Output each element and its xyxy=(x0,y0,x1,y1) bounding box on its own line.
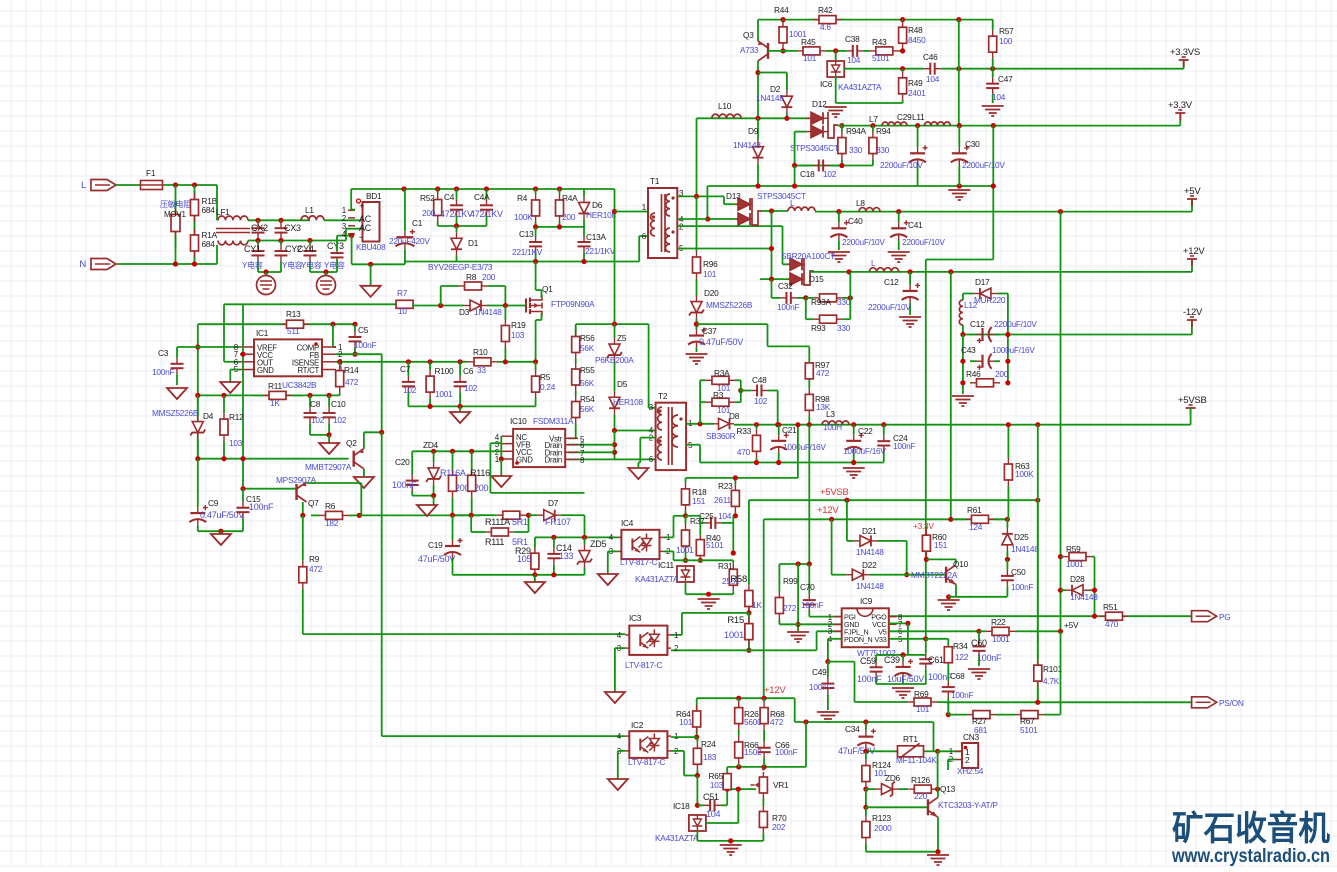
svg-text:C43: C43 xyxy=(961,345,976,355)
resistor R44 xyxy=(782,21,784,27)
svg-text:N: N xyxy=(79,259,86,270)
svg-text:56K: 56K xyxy=(580,404,595,414)
IC4 ground xyxy=(598,574,618,585)
wire R69 to PSON line xyxy=(937,701,948,703)
transistor Q10 MMBT2222A xyxy=(945,567,947,583)
junction CY earth1 xyxy=(263,269,268,274)
svg-text:R96: R96 xyxy=(703,259,718,269)
wire base Q10 xyxy=(884,574,946,576)
capacitor C20 xyxy=(411,475,413,481)
junction C8C10 gnd xyxy=(327,432,332,437)
svg-text:STPS3045CT: STPS3045CT xyxy=(757,191,806,201)
svg-text:MMBT2222A: MMBT2222A xyxy=(911,570,958,580)
svg-text:200: 200 xyxy=(562,212,576,222)
wire 5VSB riser xyxy=(1190,408,1192,425)
C8C10 ground xyxy=(328,435,330,443)
wire PDON line xyxy=(828,638,842,640)
junction sb gnd b xyxy=(776,460,781,465)
wire IC6 bottom line xyxy=(835,76,837,103)
svg-text:L1: L1 xyxy=(305,205,314,215)
wire Vstr pin5 xyxy=(568,437,576,439)
wire Q2 emitter gnd xyxy=(363,469,365,477)
wire choke top feed xyxy=(216,185,218,220)
svg-text:8450: 8450 xyxy=(908,35,926,45)
wire drain pin6 xyxy=(568,444,615,446)
resistor R4 xyxy=(535,194,537,200)
svg-text:100nF: 100nF xyxy=(392,480,417,490)
svg-text:200: 200 xyxy=(482,272,496,282)
-12V block ground xyxy=(952,396,974,406)
wire L10 line xyxy=(697,117,810,119)
wire R65 top xyxy=(726,767,728,774)
svg-text:R33: R33 xyxy=(737,426,752,436)
svg-text:1000uF/16V: 1000uF/16V xyxy=(783,442,826,452)
aux bottom ground xyxy=(720,845,742,855)
svg-text:C48: C48 xyxy=(752,375,767,385)
junction C34 bottom xyxy=(863,749,868,754)
resistor R5 xyxy=(535,370,537,376)
wire ref line C46 xyxy=(844,68,921,70)
junction R18 R37 xyxy=(683,513,688,518)
wire 5V long feed xyxy=(1060,212,1062,632)
capacitor C8 xyxy=(309,407,311,413)
capacitor C40 xyxy=(838,222,840,228)
svg-text:C32: C32 xyxy=(778,281,793,291)
svg-text:L: L xyxy=(871,258,876,268)
svg-text:MOV1: MOV1 xyxy=(164,210,186,219)
svg-text:R61: R61 xyxy=(967,505,982,515)
svg-text:1001: 1001 xyxy=(992,634,1010,644)
junction C12b right xyxy=(1005,332,1010,337)
svg-text:HER108: HER108 xyxy=(613,397,643,407)
svg-text:CX3: CX3 xyxy=(284,223,301,233)
svg-text:10uF/50V: 10uF/50V xyxy=(887,674,924,684)
svg-text:1000uF/16V: 1000uF/16V xyxy=(992,345,1035,355)
junction q13 gnd xyxy=(935,849,940,854)
svg-text:R69: R69 xyxy=(914,689,929,699)
junction D9 top xyxy=(755,116,760,121)
svg-text:C70: C70 xyxy=(800,582,815,592)
earth ground 2 xyxy=(325,272,327,276)
wire T1 pin3 line xyxy=(677,195,724,197)
junction R46 right xyxy=(1005,380,1010,385)
transistor Q2 MMBT2907A xyxy=(353,451,355,467)
diode D3 xyxy=(464,305,470,307)
wire pdon right xyxy=(828,661,855,663)
svg-text:R101: R101 xyxy=(1043,664,1062,674)
junction D2 bottom xyxy=(784,116,789,121)
svg-text:R24: R24 xyxy=(701,739,716,749)
svg-text:A733: A733 xyxy=(740,45,759,55)
wire D12 output to flag 3V3 xyxy=(838,125,1180,127)
junction sb gnd a xyxy=(754,460,759,465)
svg-text:2200uF/10V: 2200uF/10V xyxy=(880,160,923,170)
svg-text:C12: C12 xyxy=(884,277,899,287)
svg-text:PS/ON: PS/ON xyxy=(1219,698,1244,708)
junction R111 right xyxy=(469,513,474,518)
C47 ground xyxy=(982,106,1004,116)
junction cap rail xyxy=(900,652,905,657)
wire to CN3 pin1 xyxy=(938,750,962,752)
wire R22 to 5V xyxy=(1022,630,1061,632)
junction VCC col xyxy=(905,621,910,626)
svg-text:PG: PG xyxy=(1219,612,1231,622)
svg-text:104: 104 xyxy=(706,809,721,819)
resistor R54 xyxy=(575,396,577,402)
wire Q2 collector xyxy=(363,432,365,448)
svg-text:56K: 56K xyxy=(580,378,595,388)
wire D21 right drop xyxy=(884,540,907,542)
wire bottom gnd bus xyxy=(866,851,938,853)
wire D3 to gate xyxy=(490,305,526,307)
capacitor C59 xyxy=(875,661,877,667)
junction D28 left xyxy=(1058,588,1063,593)
resistor R1B xyxy=(194,194,196,200)
wire RT1 right xyxy=(925,750,938,752)
resistor R43 xyxy=(870,50,876,52)
svg-text:C68: C68 xyxy=(950,671,965,681)
pgi ground xyxy=(787,632,809,642)
svg-text:472: 472 xyxy=(770,717,784,727)
wire Q7 emitter xyxy=(307,482,362,484)
junction ref node xyxy=(736,787,741,792)
svg-text:R42: R42 xyxy=(818,5,833,15)
capacitor C4A xyxy=(486,199,488,205)
wire IC2 pin3 gnd xyxy=(618,750,625,752)
resistor R56 xyxy=(575,331,577,337)
resistor R29 xyxy=(534,548,536,554)
svg-text:+5VSB: +5VSB xyxy=(820,487,849,498)
capacitor C6 xyxy=(459,376,461,382)
svg-text:33: 33 xyxy=(477,365,486,375)
filter ground xyxy=(459,406,461,412)
junction D20 bottom xyxy=(694,322,699,327)
junction R26 top xyxy=(736,696,741,701)
resistor R94A xyxy=(841,132,843,138)
junction R46 left xyxy=(960,380,965,385)
svg-text:2611: 2611 xyxy=(714,495,731,505)
svg-text:IC1: IC1 xyxy=(256,328,269,338)
svg-text:C21: C21 xyxy=(782,425,797,435)
wire D15 out 12V line xyxy=(810,271,1192,273)
junction C5 bottom FB xyxy=(352,352,357,357)
svg-text:R8: R8 xyxy=(466,272,477,282)
wire FB link xyxy=(336,353,382,355)
diode D28 1N4148 xyxy=(1066,589,1072,591)
wire 5V line xyxy=(815,211,1192,213)
junction R100 top xyxy=(428,359,433,364)
capacitor CX2 xyxy=(257,222,259,228)
wire R58 riser xyxy=(748,500,750,584)
connector CN3 XH2.54 xyxy=(962,743,978,768)
transformer T2 xyxy=(656,403,687,470)
junction C37 top xyxy=(694,322,699,327)
wire Q3 base line xyxy=(768,50,795,52)
svg-text:104: 104 xyxy=(992,92,1006,102)
wire R9 to IC3 pin4 xyxy=(303,633,625,635)
junction R116A top xyxy=(450,449,455,454)
junction lower anode xyxy=(769,277,774,282)
junction R40 bottom xyxy=(698,558,703,563)
C37 ground xyxy=(686,354,708,364)
wire C18 line xyxy=(795,165,873,167)
resistor R61 xyxy=(965,518,971,520)
svg-text:BYV26EGP-E3/73: BYV26EGP-E3/73 xyxy=(428,262,493,272)
wire IC4 pin2 down xyxy=(663,550,673,552)
capacitor C50 xyxy=(1006,570,1008,576)
svg-text:C3: C3 xyxy=(158,348,169,358)
junction R31 top xyxy=(731,550,736,555)
svg-text:100K: 100K xyxy=(1015,469,1034,479)
junction CX2 top xyxy=(255,218,260,223)
svg-text:1001: 1001 xyxy=(676,545,694,555)
junction drain b xyxy=(612,450,617,455)
svg-text:D3: D3 xyxy=(459,307,470,317)
svg-text:100nF: 100nF xyxy=(354,340,376,350)
junction C43 left xyxy=(960,359,965,364)
zener ZD5 xyxy=(584,545,586,551)
svg-text:1001: 1001 xyxy=(1066,559,1084,569)
transistor Q3 A733 xyxy=(767,43,769,59)
svg-text:1N4148: 1N4148 xyxy=(733,140,761,150)
svg-text:L10: L10 xyxy=(718,101,732,111)
svg-text:100nF: 100nF xyxy=(809,682,831,692)
wire R124 column xyxy=(865,751,867,758)
junction PDON C49 xyxy=(825,659,830,664)
resistor R69 xyxy=(908,701,914,703)
svg-text:ZD6: ZD6 xyxy=(885,773,901,783)
primary ground xyxy=(370,264,372,286)
wire to T1 pin6 xyxy=(638,236,640,262)
junction ref R49 xyxy=(900,66,905,71)
svg-text:STPS3045CT: STPS3045CT xyxy=(790,143,839,153)
resistor R100 xyxy=(429,370,431,376)
wire pgi gnd drop xyxy=(797,564,799,631)
junction V33 xyxy=(923,636,928,641)
wire F1 to node xyxy=(163,184,217,186)
svg-text:151: 151 xyxy=(692,496,706,506)
sb ground xyxy=(843,468,865,478)
dual diode D12 STPS3045CT xyxy=(806,117,811,119)
svg-text:+5V: +5V xyxy=(1184,186,1201,197)
wire C51 right up xyxy=(726,789,728,805)
svg-text:ZD4: ZD4 xyxy=(423,440,439,450)
svg-text:www.crystalradio.cn: www.crystalradio.cn xyxy=(1171,845,1330,867)
inductor L 12V xyxy=(869,268,898,272)
svg-text:5R1: 5R1 xyxy=(512,517,528,527)
svg-text:R22: R22 xyxy=(991,617,1006,627)
common mode choke LF1 xyxy=(218,216,248,220)
svg-text:R94: R94 xyxy=(876,126,891,136)
junction R43 right xyxy=(900,48,905,53)
zener D20 MMSZ5226B xyxy=(696,296,698,302)
wire V33 line xyxy=(889,638,926,640)
wire 12V riser xyxy=(1191,259,1193,272)
svg-text:R34: R34 xyxy=(953,641,968,651)
wire T1 pin2 xyxy=(677,225,782,227)
wire C25 left up xyxy=(699,516,701,523)
wire ka431 ref bus xyxy=(674,559,734,561)
svg-text:182: 182 xyxy=(325,518,339,528)
resistor R12 xyxy=(223,413,225,419)
svg-text:R4: R4 xyxy=(517,193,528,203)
wire IC6 top xyxy=(835,51,837,61)
svg-text:R100: R100 xyxy=(435,366,454,376)
svg-text:R55: R55 xyxy=(580,365,595,375)
junction FB node xyxy=(379,430,384,435)
junction sense a xyxy=(956,66,961,71)
svg-text:+12V: +12V xyxy=(764,685,786,696)
resistor R19 xyxy=(504,320,506,326)
resistor R6 xyxy=(320,514,326,516)
wire Q7 collector xyxy=(302,502,304,515)
svg-text:KTC3203-Y-AT/P: KTC3203-Y-AT/P xyxy=(938,800,998,810)
junction IC11 gnd xyxy=(706,592,711,597)
wire IC4 pin3 gnd xyxy=(608,550,618,552)
wire IC4 pin1 up xyxy=(663,536,673,538)
svg-text:FTP09N90A: FTP09N90A xyxy=(551,299,595,309)
inductor L8 xyxy=(859,208,880,212)
svg-text:124: 124 xyxy=(969,522,983,532)
junction IC18 top xyxy=(695,803,700,808)
junction PSON R101 xyxy=(1035,700,1040,705)
wire R111 line xyxy=(453,514,495,516)
wire 3V3 sb drop xyxy=(992,126,994,260)
junction R4A top xyxy=(557,186,562,191)
wire L1 to BD1 pin2 xyxy=(324,219,363,221)
junction C18 left xyxy=(792,163,797,168)
svg-text:ZD5: ZD5 xyxy=(590,539,606,549)
wire VCC bus ZD4 xyxy=(412,450,501,452)
resistor R59 xyxy=(1063,556,1069,558)
inductor L10 xyxy=(712,114,741,118)
wire C19 tap xyxy=(452,515,454,537)
wire T2 pin2 gnd xyxy=(640,437,655,439)
svg-text:C49: C49 xyxy=(812,667,827,677)
junction R22 left xyxy=(976,629,981,634)
capacitor C19 xyxy=(452,540,454,546)
wire drain column xyxy=(614,431,616,460)
wire IC2 pin4 line xyxy=(382,735,626,737)
svg-text:RT/CT: RT/CT xyxy=(297,366,319,375)
junction R63 top xyxy=(1006,422,1011,427)
inductor L 5V xyxy=(788,207,815,211)
wire cap gnd rail xyxy=(876,683,926,685)
svg-text:104: 104 xyxy=(926,74,940,84)
wire R101 feed xyxy=(1037,500,1039,644)
svg-text:R123: R123 xyxy=(872,813,891,823)
svg-text:1N4148: 1N4148 xyxy=(474,307,502,317)
junction R5 top xyxy=(533,359,538,364)
svg-text:D25: D25 xyxy=(1014,532,1029,542)
svg-text:+5VSB: +5VSB xyxy=(1178,395,1207,406)
svg-text:100nF: 100nF xyxy=(152,367,174,377)
junction L1a xyxy=(173,182,178,187)
svg-text:C18: C18 xyxy=(800,169,815,179)
IC9 WT7510 xyxy=(842,608,889,647)
wire 3V3VS riser xyxy=(1183,60,1185,69)
svg-text:330: 330 xyxy=(849,145,863,155)
svg-text:D22: D22 xyxy=(862,560,877,570)
wire RT1 line xyxy=(866,750,900,752)
wire CY4 CY3 bottoms xyxy=(309,266,311,272)
zener D4 MMSZ5226B xyxy=(197,416,199,422)
svg-text:100: 100 xyxy=(999,36,1013,46)
svg-text:684: 684 xyxy=(202,205,216,215)
svg-text:R93A: R93A xyxy=(811,297,831,307)
junction 12V col tap xyxy=(948,269,953,274)
svg-text:2: 2 xyxy=(965,755,970,765)
junction PG R51 xyxy=(1092,614,1097,619)
wire IC18 ref link xyxy=(706,822,738,824)
svg-text:V33: V33 xyxy=(874,635,886,644)
svg-text:CY1: CY1 xyxy=(244,244,261,254)
capacitor C46 xyxy=(924,68,930,70)
wire CN3 drop xyxy=(933,722,935,751)
junction IC6 ref xyxy=(833,48,838,53)
wire R60 to Q10 collector xyxy=(926,558,956,560)
wire C43 line xyxy=(962,335,964,395)
capacitor C47 xyxy=(992,78,994,84)
wire ZD4 C20 bottoms xyxy=(412,495,433,497)
svg-text:SB360R: SB360R xyxy=(706,431,736,441)
junction base node xyxy=(863,805,868,810)
svg-text:330: 330 xyxy=(876,145,890,155)
svg-text:1N4148: 1N4148 xyxy=(756,93,784,103)
wire sense line xyxy=(944,68,1184,70)
capacitor C49 xyxy=(827,678,829,684)
junction VCC rail bottom xyxy=(240,456,245,461)
wire 5VSB col down xyxy=(1037,425,1039,703)
resistor R66 xyxy=(738,736,740,742)
svg-text:R11: R11 xyxy=(268,381,282,391)
junction gnd bus c30 xyxy=(957,183,962,188)
svg-text:C4: C4 xyxy=(444,192,455,202)
svg-text:LTV-817-C: LTV-817-C xyxy=(625,660,663,670)
svg-text:103: 103 xyxy=(511,330,525,340)
wire gnd bus left drop xyxy=(706,186,708,219)
junction R58 bottom xyxy=(746,610,751,615)
svg-text:102: 102 xyxy=(333,415,347,425)
svg-text:C13: C13 xyxy=(519,229,534,239)
bridge rectifier BD1 xyxy=(363,202,380,242)
junction R93A left xyxy=(803,295,808,300)
svg-text:1001: 1001 xyxy=(435,389,453,399)
junction R37 bottom xyxy=(683,558,688,563)
svg-text:R13: R13 xyxy=(286,309,301,319)
svg-text:472: 472 xyxy=(309,564,323,574)
junction Q7 base tap xyxy=(240,486,245,491)
junction R59 left xyxy=(1058,554,1063,559)
svg-text:103: 103 xyxy=(710,780,724,790)
svg-text:101: 101 xyxy=(803,53,817,63)
svg-text:C46: C46 xyxy=(923,52,938,62)
wire D7 to ZD5 bus xyxy=(570,514,585,516)
junction L3 right xyxy=(851,422,856,427)
svg-text:C40: C40 xyxy=(848,216,863,226)
junction R19 bottom xyxy=(503,359,508,364)
svg-text:R10: R10 xyxy=(473,347,488,357)
svg-text:L7: L7 xyxy=(869,114,878,124)
junction N1 xyxy=(173,261,178,266)
resistor R3 xyxy=(706,401,712,403)
junction 5V tap xyxy=(1058,209,1063,214)
junction bot gnd xyxy=(728,838,733,843)
junction sb gnd c xyxy=(851,460,856,465)
inductor L1 xyxy=(301,216,324,220)
svg-text:R15: R15 xyxy=(727,615,744,626)
junction pin1 node xyxy=(698,421,703,426)
